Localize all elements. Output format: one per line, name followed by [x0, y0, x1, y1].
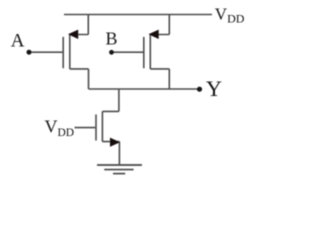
node B junction dot [109, 50, 114, 55]
wire VDD rail [64, 14, 212, 16]
wire Q1 drain to node Y [70, 69, 89, 89]
wire Q3 source to ground [102, 142, 119, 165]
transistor Q3 channel bar [101, 111, 103, 141]
wire Q2 drain to node Y [150, 69, 169, 89]
transistor Q2 source arrow (PMOS) [149, 30, 159, 39]
transistor Q2 channel bar [149, 34, 151, 69]
ground [97, 165, 142, 174]
svg-text:VDD: VDD [45, 116, 75, 138]
wire input B to Q2 gate [112, 51, 144, 53]
svg-text:B: B [106, 29, 118, 49]
transistor Q3 gate bar [95, 115, 97, 141]
transistor Q2 gate bar [143, 37, 145, 68]
svg-text:VDD: VDD [215, 5, 245, 26]
wire node Y horizontal [89, 88, 200, 90]
transistor Q3 source arrow (NMOS) [110, 138, 120, 147]
wire Q2 source to rail [150, 15, 169, 35]
transistor Q1 gate bar [62, 37, 64, 68]
wire VDD to Q3 gate [75, 127, 96, 129]
svg-text:A: A [11, 30, 25, 51]
svg-text:Y: Y [206, 76, 222, 101]
wire node Y down to Q3 drain [102, 89, 119, 111]
transistor Q1 channel bar [69, 34, 71, 69]
wire Q1 source to rail [70, 15, 89, 35]
transistor Q1 source arrow (PMOS) [68, 30, 78, 39]
wire input A to Q1 gate [29, 51, 62, 53]
node A junction dot [27, 50, 32, 55]
node Y junction dot [197, 87, 202, 92]
